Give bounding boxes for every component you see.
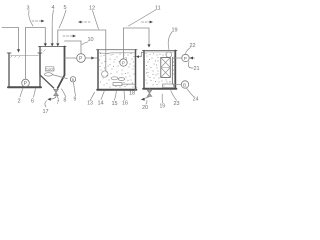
label 15	[112, 91, 118, 108]
under-filter diffuser box	[163, 84, 174, 88]
dashed flow arrow (left top, pointing right)	[32, 20, 42, 22]
label 3	[27, 6, 34, 27]
diffuser bubbles tank 13	[111, 77, 118, 80]
bridge pipe to vessel 4	[26, 28, 46, 44]
svg-text:11: 11	[155, 6, 161, 12]
diffuser air line to wall	[122, 83, 136, 85]
vessel 4 (crystallization tank with cone bottom)	[39, 46, 67, 48]
tank 13 stipple	[99, 53, 135, 88]
svg-text:8: 8	[64, 98, 67, 104]
svg-text:13: 13	[87, 101, 93, 107]
tank 18 (filter tank)	[143, 50, 178, 52]
dashed flow arrow above hood line	[63, 35, 73, 37]
blower circle B (vessel 4)	[70, 77, 75, 82]
hood line from vessel 4 to pump 10	[65, 41, 82, 54]
tank 13 water line	[99, 52, 135, 55]
label 13	[87, 92, 94, 106]
svg-text:9: 9	[74, 97, 77, 103]
label 19 (bottom, filter underdrain)	[160, 94, 166, 110]
gas return line 12 with downcomer into vessel 4	[58, 30, 106, 71]
svg-text:21: 21	[194, 66, 200, 72]
svg-text:17: 17	[43, 109, 49, 115]
label 24	[186, 88, 198, 103]
svg-text:B: B	[72, 78, 75, 82]
label 8	[62, 89, 67, 104]
svg-text:10: 10	[88, 37, 94, 43]
cone discharge valve	[54, 89, 58, 95]
filter column with X bracing	[161, 58, 171, 78]
label 11	[129, 6, 161, 27]
tank 13 (aeration tank)	[97, 49, 138, 51]
svg-text:7: 7	[57, 100, 60, 106]
svg-text:P: P	[79, 56, 83, 62]
svg-text:P: P	[122, 61, 125, 67]
pump P (transfer pump 10)	[77, 54, 86, 63]
label 10	[82, 37, 94, 45]
tank 18 stipple	[146, 53, 175, 87]
chemical feed pipe 4	[51, 27, 53, 44]
svg-text:14: 14	[98, 101, 104, 107]
svg-text:19: 19	[172, 28, 178, 34]
svg-text:P: P	[184, 56, 187, 62]
svg-text:2: 2	[18, 99, 21, 105]
label 4	[52, 5, 55, 26]
transfer pipe vessel4 to pump	[65, 57, 77, 59]
label 12	[89, 6, 99, 30]
small circle (agitator) in tank 13	[102, 71, 108, 77]
transfer line 11 to tank 18	[124, 28, 150, 45]
dashed flow arrow on line 12 (pointing left)	[81, 21, 90, 23]
label 18	[129, 88, 137, 97]
level sensor circle tank 18	[166, 52, 172, 58]
inlet arrowhead	[17, 49, 20, 52]
label 19	[168, 28, 177, 50]
label 7	[57, 95, 60, 106]
bridge arrowhead	[44, 43, 47, 46]
label 20	[142, 101, 148, 112]
svg-text:CaCO: CaCO	[46, 68, 55, 72]
CaCO3 seed box inside vessel 4	[45, 67, 54, 71]
outlet pipe to pump 21	[175, 57, 181, 59]
tank 18 water line	[145, 51, 174, 53]
blower B (tank 18)	[181, 81, 188, 88]
svg-text:6: 6	[31, 99, 34, 105]
label 23	[171, 91, 180, 107]
svg-text:24: 24	[193, 96, 199, 102]
riser pipe from pump	[25, 28, 27, 80]
sparger air line	[53, 75, 68, 79]
pump P (product pump)	[182, 54, 189, 61]
svg-text:18: 18	[129, 91, 135, 97]
tank 2 water line	[11, 55, 39, 57]
svg-text:22: 22	[190, 43, 196, 49]
inlet pipe	[2, 28, 19, 50]
svg-text:23: 23	[174, 101, 180, 107]
label 21	[188, 62, 199, 73]
svg-text:16: 16	[122, 101, 128, 107]
pipe pump to tank 13	[85, 57, 97, 59]
svg-text:19: 19	[160, 104, 166, 110]
sparger oval inside vessel 4	[45, 73, 53, 76]
vessel 4 water hatch	[40, 50, 46, 52]
submersible pump P in tank 13	[120, 59, 127, 66]
tank 2 (raw water tank)	[7, 52, 42, 54]
label 17 (cone discharge)	[43, 101, 49, 115]
pump P in tank 2	[22, 79, 30, 87]
svg-text:4: 4	[52, 5, 55, 11]
dashed flow arrow on line 11	[142, 21, 151, 23]
svg-text:12: 12	[89, 6, 95, 12]
svg-text:15: 15	[112, 101, 118, 107]
svg-text:B: B	[183, 83, 186, 89]
label 2	[18, 88, 24, 105]
riser from pump 13	[123, 28, 125, 59]
diffuser box tank 13	[113, 83, 122, 86]
label 5	[59, 5, 67, 28]
label 14	[98, 91, 105, 107]
cone discharge arrow	[51, 96, 57, 99]
air line through wall to blower	[173, 84, 181, 86]
overflow return pipe tank18 to tank13	[138, 52, 145, 56]
label 6	[31, 89, 36, 105]
drain pipe and valve under tank 18	[149, 89, 151, 90]
label 22	[186, 43, 196, 54]
outlet arrow right of pump	[190, 57, 195, 59]
label 16	[122, 91, 128, 107]
label 9	[74, 83, 77, 103]
svg-text:20: 20	[142, 105, 148, 111]
